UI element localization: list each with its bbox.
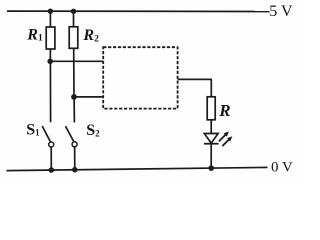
wire: R bottom lead to LED anode — [210, 120, 212, 134]
LED D1 cathode bar — [204, 143, 219, 145]
junction dot: node B (R2 / S2 / box input 2) — [71, 94, 77, 100]
wire: node B to logic box input 2 — [74, 96, 103, 98]
junction dot: top rail to R1 — [48, 9, 53, 14]
wire: S2 to 0V rail — [74, 147, 76, 170]
wire: node B down to switch S2 — [73, 97, 75, 123]
resistor R2 — [69, 27, 78, 49]
junction dot: LED to 0V rail — [208, 165, 214, 171]
junction dot: S1 to 0V rail — [49, 167, 55, 173]
wire: S1 to 0V rail — [50, 147, 52, 170]
wire: node A down to switch S1 — [49, 61, 51, 122]
logic block U1 (dashed box) — [103, 47, 177, 108]
junction dot: node A (R1 / S1 / box input 1) — [47, 59, 53, 65]
wire: 0V bottom rail — [7, 167, 268, 170]
LED light arrow 2 — [222, 136, 232, 146]
svg-text:S1: S1 — [26, 121, 40, 138]
wire: box output horizontal — [178, 78, 212, 80]
wire: R2 bottom lead to node B — [73, 48, 75, 97]
LED D1 anode triangle — [204, 134, 218, 144]
svg-text:R2: R2 — [82, 27, 99, 45]
junction dot: top rail to R2 — [71, 9, 76, 14]
wire: node A to logic box input 1 — [50, 60, 103, 62]
wire: +5V top rail — [7, 10, 270, 12]
wire: R1 top lead — [49, 11, 51, 27]
svg-text:0 V: 0 V — [271, 160, 293, 176]
svg-text:R1: R1 — [26, 26, 43, 43]
wire: R2 top lead — [73, 11, 75, 27]
LED light arrow 1 — [219, 131, 229, 141]
switch S1 (open, lever) — [42, 126, 54, 147]
junction dot: S2 to 0V rail — [72, 167, 78, 173]
resistor R — [207, 97, 215, 120]
wire: LED cathode to 0V rail — [210, 144, 212, 169]
svg-text:R: R — [218, 101, 230, 120]
svg-text:S2: S2 — [86, 122, 100, 139]
resistor R1 — [46, 27, 55, 49]
svg-text:5 V: 5 V — [269, 3, 293, 20]
switch S2 (open, lever) — [66, 126, 78, 147]
wire: R1 bottom lead to node A — [49, 49, 51, 61]
wire: output down to resistor R — [210, 79, 212, 97]
